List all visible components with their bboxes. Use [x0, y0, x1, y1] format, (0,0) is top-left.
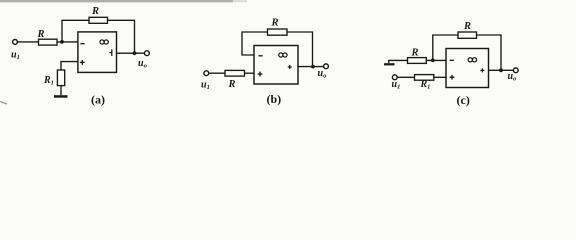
ground (c) left [384, 60, 408, 65]
svg-text:uo: uo [318, 68, 328, 80]
op-amp (b) minus input marker [258, 55, 262, 57]
wire output (c) [489, 69, 514, 71]
svg-text:R1: R1 [43, 75, 54, 87]
svg-text:(b): (b) [267, 92, 282, 106]
svg-text:R1: R1 [420, 79, 431, 91]
junction node (a) inverting input [60, 40, 64, 44]
resistor R minus branch (c) [408, 58, 427, 64]
junction node output (c) [499, 68, 503, 72]
wire output (b) [298, 66, 324, 68]
svg-text:u1: u1 [201, 80, 210, 92]
op-amp (a) plus input marker [80, 60, 85, 65]
wire R to op-amp minus (a) [57, 41, 78, 43]
resistor R1 input (c) [415, 75, 434, 81]
wire feedback right (a) [108, 20, 135, 53]
wire feedback right (c) [477, 35, 502, 70]
resistor R input (a) [39, 39, 58, 45]
svg-text:R: R [271, 18, 279, 29]
wire R to plus input (b) [245, 72, 255, 74]
wire feedback right (b) [287, 32, 313, 67]
wire input to R (a) [18, 41, 39, 43]
op-amp (b) plus input marker [258, 72, 263, 77]
resistor R feedback (a) [89, 17, 108, 23]
op-amp (c) minus input marker [450, 59, 454, 61]
scan artifact: bottom-left mark [0, 102, 7, 105]
wire feedback left (b) [242, 32, 268, 55]
input terminal (a) [13, 40, 18, 45]
wire plus input (a) [61, 62, 78, 70]
resistor R feedback (b) [268, 29, 288, 35]
input terminal (b) [204, 71, 209, 76]
wire feedback left (a) [62, 20, 89, 42]
svg-text:(c): (c) [457, 93, 470, 107]
ground (a) [54, 95, 68, 98]
scan artifact: top gray bar [0, 0, 247, 2]
op-amp (c) plus input marker [450, 75, 455, 80]
junction node output (a) [133, 51, 137, 55]
junction node (c) inverting input [431, 58, 435, 62]
svg-text:u1: u1 [392, 79, 401, 91]
svg-text:u1: u1 [11, 49, 20, 61]
op-amp (a) output polarity tick [109, 49, 112, 56]
svg-text:(a): (a) [91, 93, 105, 107]
wire feedback left (c) [433, 35, 458, 60]
svg-text:R: R [228, 79, 236, 90]
svg-text:R: R [37, 29, 45, 40]
op-amp (b) infinity gain symbol [279, 53, 287, 57]
wire input to R (b) [209, 72, 225, 74]
resistor R input (b) [225, 70, 245, 76]
op-amp (c) infinity gain symbol [468, 58, 476, 62]
output terminal (c) [513, 68, 518, 73]
svg-text:uo: uo [138, 58, 148, 70]
op-amp (a) minus input marker [80, 43, 84, 45]
wire output (a) [117, 52, 145, 54]
wire R1 to plus input (c) [434, 76, 446, 78]
svg-text:R: R [463, 21, 471, 32]
wire R to minus input (c) [426, 59, 446, 61]
op-amp (c) output polarity plus [480, 68, 484, 72]
resistor R feedback (c) [458, 32, 477, 38]
op-amp U (b) body [254, 46, 298, 85]
resistor R1 balance (a) [57, 70, 64, 86]
junction node output (b) [311, 65, 315, 69]
op-amp (b) output polarity plus [288, 65, 292, 69]
svg-text:R: R [91, 6, 99, 17]
wire R1 to ground (a) [60, 86, 62, 96]
output terminal (b) [324, 64, 329, 69]
op-amp (a) infinity gain symbol [100, 40, 108, 44]
input terminal (c) [392, 75, 397, 80]
svg-text:R: R [411, 48, 419, 59]
output terminal (a) [145, 51, 150, 56]
wire input to R1 (c) [397, 76, 414, 78]
op-amp U (c) body [446, 49, 489, 88]
op-amp U (a) body [78, 32, 117, 73]
